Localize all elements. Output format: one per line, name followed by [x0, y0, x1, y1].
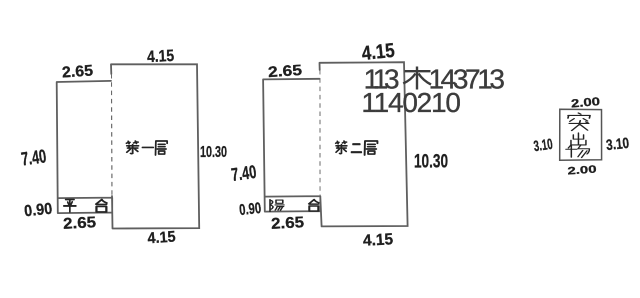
svg-text:2.65: 2.65	[63, 214, 97, 233]
svg-text:4.15: 4.15	[361, 40, 396, 65]
svg-text:3.10: 3.10	[605, 135, 630, 154]
svg-text:1140210: 1140210	[361, 87, 461, 118]
svg-text:4.15: 4.15	[147, 47, 175, 66]
svg-text:2.00: 2.00	[567, 163, 597, 177]
svg-text:10.30: 10.30	[414, 152, 448, 173]
svg-text:2.00: 2.00	[571, 96, 601, 110]
svg-text:4.15: 4.15	[363, 231, 394, 250]
svg-text:0.90: 0.90	[238, 200, 262, 219]
svg-text:2.65: 2.65	[271, 214, 305, 233]
svg-text:7.40: 7.40	[230, 161, 258, 185]
svg-text:7.40: 7.40	[20, 146, 48, 170]
svg-text:2.65: 2.65	[62, 62, 94, 81]
svg-text:2.65: 2.65	[267, 62, 302, 81]
svg-text:3.10: 3.10	[533, 136, 554, 155]
svg-text:4.15: 4.15	[147, 228, 176, 247]
svg-text:10.30: 10.30	[200, 144, 227, 161]
svg-text:0.90: 0.90	[23, 201, 53, 221]
